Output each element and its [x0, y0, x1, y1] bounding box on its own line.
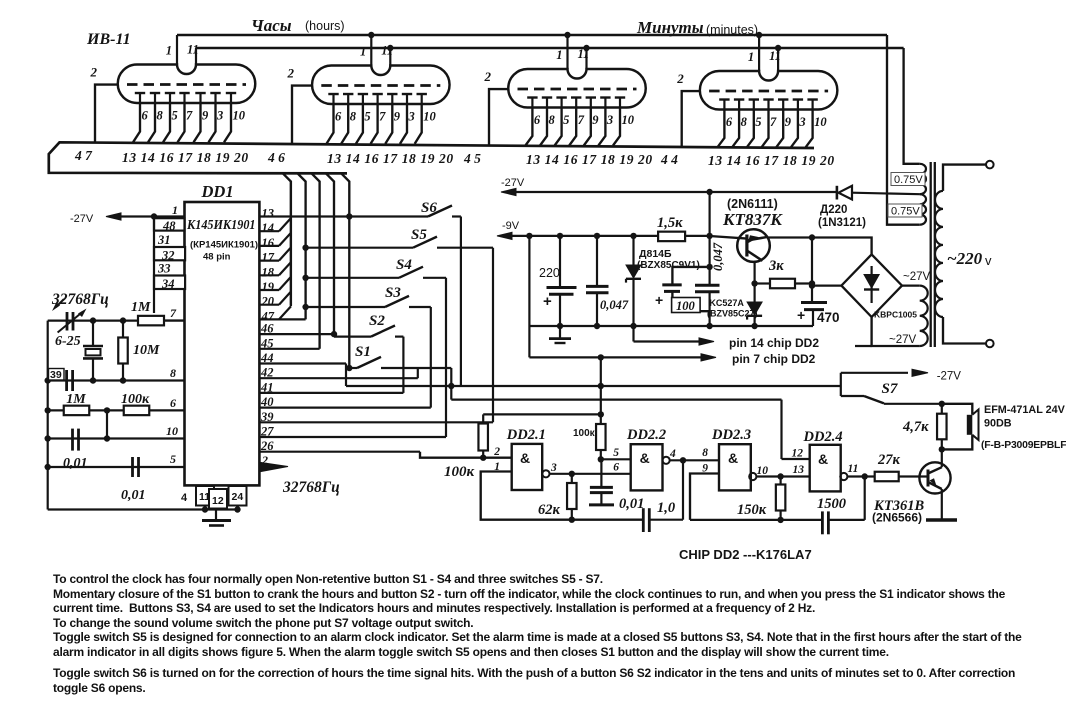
DD2.2 output wire [670, 459, 719, 461]
svg-text:0,01: 0,01 [619, 496, 644, 512]
S7 to speaker node [884, 403, 942, 405]
switch S4 [302, 275, 308, 281]
tube pin 1 riser [758, 35, 760, 71]
svg-text:5: 5 [613, 447, 619, 459]
svg-text:0,01: 0,01 [63, 456, 88, 471]
capacitor 0,01 DD2 [600, 459, 602, 486]
bridge right to winding [902, 285, 920, 287]
svg-text:10: 10 [757, 465, 769, 477]
collector wire [769, 236, 813, 238]
DD1 pin 27 wire [259, 436, 446, 438]
svg-text:4: 4 [669, 448, 676, 460]
svg-text:1: 1 [748, 50, 754, 64]
wire to pin 7 of DD2 [529, 356, 702, 358]
svg-text:11: 11 [381, 44, 393, 58]
trimmer capacitor 6-25 [164, 319, 185, 321]
svg-text:Д814Б: Д814Б [639, 248, 672, 260]
svg-text:(minutes): (minutes) [706, 23, 758, 37]
heater rail 1 drop wire [887, 35, 920, 225]
svg-text:~27V: ~27V [889, 334, 917, 346]
resistor 1M pin7 [138, 316, 164, 326]
-9V rail with arrow [497, 232, 512, 239]
svg-text:11: 11 [578, 47, 590, 61]
svg-text:(2N6566): (2N6566) [872, 511, 922, 525]
svg-text:DD2.2: DD2.2 [626, 427, 666, 443]
svg-text:pin 7 chip DD2: pin 7 chip DD2 [732, 352, 816, 366]
quartz crystal 32768 [90, 317, 96, 323]
svg-text:1: 1 [172, 203, 178, 217]
svg-text:S4: S4 [396, 257, 412, 273]
svg-text:470: 470 [817, 310, 840, 325]
DD2.4 pin12 riser [780, 400, 782, 459]
svg-text:150к: 150к [737, 502, 767, 518]
wiring bus band outline [49, 142, 814, 173]
KT361V ground bar [926, 518, 957, 522]
label 0.75V upper [891, 173, 925, 186]
svg-text:5: 5 [170, 452, 176, 466]
svg-text:Д220: Д220 [820, 204, 847, 216]
svg-text:~220: ~220 [947, 249, 983, 268]
tube grid pin 2 wire [682, 91, 700, 147]
svg-text:6-25: 6-25 [55, 334, 81, 349]
svg-text:(2N6111): (2N6111) [727, 197, 778, 211]
svg-text:2: 2 [287, 66, 295, 81]
tube bottom pin wires to bus [525, 108, 532, 146]
svg-text:7: 7 [578, 113, 585, 127]
tube internal dashed grid line [709, 90, 828, 93]
tube segment electrodes [527, 96, 537, 98]
gate DD2.3 [719, 444, 751, 490]
svg-text:1500: 1500 [817, 496, 846, 512]
DD1 pin 44 wire [259, 362, 346, 364]
svg-text:&: & [818, 451, 828, 467]
svg-text:220: 220 [539, 266, 560, 280]
resistor 27k [875, 472, 899, 482]
svg-text:39: 39 [50, 369, 62, 381]
switch S3 [302, 304, 308, 310]
DD1 pin 34 box [154, 276, 185, 290]
svg-text:EFM-471AL 24V: EFM-471AL 24V [984, 404, 1066, 416]
svg-text:48 pin: 48 pin [203, 252, 231, 263]
tube bottom pin wires to bus [717, 110, 724, 148]
svg-text:31: 31 [157, 233, 171, 247]
svg-text:S5: S5 [411, 227, 427, 243]
tube segment electrodes [719, 98, 729, 100]
svg-text:13 14 16 17 18 19 20: 13 14 16 17 18 19 20 [526, 152, 653, 167]
switch S2 [331, 331, 337, 337]
svg-text:7: 7 [379, 110, 386, 124]
svg-text:13 14 16 17 18 19 20: 13 14 16 17 18 19 20 [708, 153, 835, 168]
svg-text:8: 8 [741, 115, 748, 129]
svg-text:(F-B-P3009EPBLF): (F-B-P3009EPBLF) [981, 440, 1066, 451]
primary terminals [943, 165, 986, 191]
svg-text:8: 8 [350, 110, 357, 124]
svg-text:19: 19 [262, 280, 275, 294]
tube pin 11 riser [585, 48, 587, 69]
svg-text:+: + [797, 307, 805, 323]
svg-text:4: 4 [181, 492, 188, 504]
wire to pin 14 of DD2 [632, 326, 634, 342]
svg-text:100к: 100к [121, 392, 150, 407]
bottom wire to DD2.2 output [650, 519, 683, 521]
svg-text:32: 32 [161, 249, 175, 263]
svg-text:(BZX85C9V1): (BZX85C9V1) [637, 260, 700, 271]
tube internal dashed grid line [127, 83, 246, 86]
svg-text:10М: 10М [133, 343, 160, 358]
wire pin7-line to 100k pullups [598, 354, 604, 360]
-27V rail with arrow [501, 188, 516, 195]
node: hours heater rail (rail 1) [177, 34, 887, 37]
DD2.3 output wire [756, 475, 809, 477]
svg-text:3к: 3к [768, 258, 784, 274]
svg-text:(BZV85C27): (BZV85C27) [707, 309, 758, 319]
VFD tube IV-11 envelope at x=380.8 [312, 66, 450, 105]
svg-text:5: 5 [563, 113, 569, 127]
svg-text:4 6: 4 6 [267, 150, 285, 165]
DD1 pin 26 wire [259, 451, 420, 453]
DD1 pin 45 wire [259, 348, 319, 350]
transistor KT361V (2N6566) [899, 475, 928, 477]
svg-text:v: v [985, 253, 992, 268]
svg-text:3: 3 [798, 115, 805, 129]
tube pin 1 riser [566, 35, 568, 69]
secondary winding 0.75V lower [920, 194, 926, 225]
svg-text:1: 1 [556, 48, 562, 62]
svg-text:&: & [520, 450, 530, 466]
svg-text:18: 18 [262, 265, 275, 279]
svg-text:8: 8 [549, 113, 556, 127]
svg-text:KC527A: KC527A [709, 298, 744, 308]
resistor 10M [122, 321, 124, 338]
PSU ground symbol [559, 326, 561, 338]
svg-text:0,01: 0,01 [121, 488, 146, 503]
secondary winding ~27V [920, 286, 928, 346]
zener diode D814B [630, 233, 636, 239]
S4 drop wire to pin27 row [445, 278, 447, 437]
capacitor 220uF electrolytic [557, 233, 563, 239]
svg-text:16: 16 [262, 236, 275, 250]
primary winding 220V [935, 191, 943, 317]
svg-text:0.75V: 0.75V [894, 174, 923, 186]
svg-text:6: 6 [613, 462, 619, 474]
heater rail 2 drop wire [904, 48, 920, 164]
svg-text:1,5к: 1,5к [657, 215, 683, 231]
DD2.4 pin 12 input wire [782, 458, 810, 460]
svg-text:11: 11 [848, 463, 859, 475]
svg-text:3: 3 [408, 110, 415, 124]
DD1 pin 5 row with 0,01 cap [48, 466, 185, 468]
svg-text:К145ИК1901: К145ИК1901 [186, 217, 255, 232]
svg-text:100: 100 [676, 299, 696, 313]
svg-text:&: & [640, 450, 650, 466]
svg-text:DD2.3: DD2.3 [711, 427, 751, 443]
svg-text:5: 5 [172, 109, 178, 123]
svg-text:ИВ-11: ИВ-11 [86, 31, 131, 48]
svg-text:3: 3 [550, 462, 557, 474]
svg-text:2: 2 [676, 71, 684, 86]
DD1 pin 48 box [154, 218, 185, 230]
svg-text:14: 14 [262, 221, 275, 235]
svg-text:0,047: 0,047 [600, 298, 629, 312]
switch S1 [346, 365, 352, 371]
vertical joining slant stubs [290, 182, 292, 307]
capacitor 0,047 #1 [594, 233, 600, 239]
svg-text:S3: S3 [385, 285, 401, 301]
switch S6 [346, 213, 352, 219]
zener KS527A (BZV85C27) [747, 302, 762, 315]
gate DD2.4 [810, 445, 841, 492]
svg-text:13: 13 [793, 464, 805, 476]
resistor 62k [571, 474, 573, 483]
svg-text:1,0: 1,0 [657, 500, 675, 516]
DD1 pin 32 box [154, 247, 185, 260]
svg-text:11: 11 [769, 49, 781, 63]
svg-text:2: 2 [90, 65, 98, 80]
DD2.4 output wire [847, 475, 874, 477]
svg-text:S1: S1 [355, 344, 371, 360]
svg-text:10: 10 [166, 424, 178, 438]
DD2.1 output wire [550, 473, 631, 475]
resistor 100k #2 [596, 424, 606, 450]
svg-text:62к: 62к [538, 502, 561, 518]
svg-text:11: 11 [187, 43, 199, 57]
long wire to S7 [346, 385, 841, 387]
svg-text:S2: S2 [369, 313, 385, 329]
DD1 pin 46 wire [259, 333, 334, 335]
svg-text:17: 17 [262, 251, 275, 265]
tube grid pin 2 wire [95, 85, 118, 143]
svg-text:(КР145ИК1901): (КР145ИК1901) [190, 240, 258, 251]
pullup top wire [483, 413, 601, 415]
switch S7 branch [840, 373, 842, 396]
speaker EFM-471AL [942, 404, 973, 415]
svg-text:S7: S7 [882, 381, 898, 397]
svg-text:10: 10 [233, 109, 246, 123]
svg-text:33: 33 [157, 262, 171, 276]
svg-text:3: 3 [606, 113, 613, 127]
DD1 pin 1 wire to -27V [106, 213, 121, 220]
tube segment electrodes [135, 92, 145, 94]
bridge left to 470 node [812, 285, 841, 287]
svg-text:~27V: ~27V [903, 271, 931, 283]
tube segment electrodes [328, 93, 338, 95]
capacitor 100uF electrolytic [672, 267, 709, 284]
svg-text:10: 10 [814, 115, 827, 129]
wire -9V to pin7 net vertical [528, 236, 530, 358]
DD1 left pins common rail [153, 217, 155, 314]
capacitor 1,0 in bottom wire [642, 508, 645, 532]
DD1 pin 6 row: 1M and 100k resistors [48, 409, 185, 411]
svg-text:4 7: 4 7 [74, 148, 93, 163]
tube pin 11 riser [195, 48, 197, 65]
svg-text:DD2.4: DD2.4 [803, 429, 843, 445]
svg-text:24: 24 [232, 491, 244, 503]
svg-text:DD1: DD1 [201, 182, 234, 201]
svg-text:2: 2 [484, 69, 492, 84]
tube pin 11 riser [777, 48, 779, 71]
resistor 100k #1 [482, 414, 484, 423]
bridge bottom wire [872, 317, 920, 346]
svg-text:-27V: -27V [937, 371, 962, 383]
svg-text:5: 5 [364, 110, 370, 124]
tube pin 1 riser [370, 35, 372, 66]
svg-text:+: + [655, 292, 663, 308]
resistor 150k [779, 477, 781, 485]
svg-text:DD2.1: DD2.1 [506, 427, 546, 443]
S2 drop wire to pin41 row [402, 337, 404, 393]
svg-text:8: 8 [157, 109, 164, 123]
svg-text:CHIP DD2 ---K176LA7: CHIP DD2 ---K176LA7 [679, 547, 812, 562]
diode D220 on -27V rail [836, 186, 839, 200]
DD1 ground symbol [215, 510, 217, 520]
PSU common rail [529, 325, 813, 327]
gate DD2.2 [631, 444, 663, 490]
svg-text:8: 8 [702, 447, 708, 459]
VFD tube IV-11 envelope at x=186.5 [118, 65, 256, 104]
svg-text:(1N3121): (1N3121) [818, 217, 866, 229]
svg-text:(hours): (hours) [305, 19, 345, 33]
svg-text:90DB: 90DB [984, 418, 1012, 430]
tube internal dashed grid line [321, 84, 440, 87]
DD1 bottom pins to ground wire [204, 506, 206, 510]
svg-text:4 4: 4 4 [660, 152, 678, 167]
svg-text:13: 13 [262, 207, 275, 221]
svg-text:1: 1 [360, 45, 366, 59]
svg-text:6: 6 [142, 109, 149, 123]
tube grid pin 2 wire [489, 89, 509, 145]
svg-text:-9V: -9V [502, 220, 520, 232]
svg-text:1: 1 [166, 44, 172, 58]
DD2.1 input 1 feedback wire [481, 472, 643, 520]
svg-text:100к: 100к [573, 428, 596, 439]
svg-text:32768Гц: 32768Гц [282, 479, 340, 496]
svg-text:7: 7 [770, 115, 777, 129]
svg-text:13 14 16 17 18 19 20: 13 14 16 17 18 19 20 [327, 151, 454, 166]
DD1 pin 39 wire [259, 421, 493, 423]
DD2.2 input 5 wire [601, 458, 630, 460]
diode bridge KBPC1005 [841, 254, 902, 317]
svg-text:8: 8 [170, 366, 176, 380]
base feed vertical and 0,047 #2 capacitor [706, 233, 712, 239]
svg-text:10: 10 [423, 110, 436, 124]
svg-text:9: 9 [202, 109, 209, 123]
svg-text:48: 48 [162, 219, 176, 233]
DD1 pin 40 wire [259, 407, 430, 409]
emitter wire down [753, 262, 755, 302]
svg-text:5: 5 [755, 115, 761, 129]
oscillator left rail [47, 321, 49, 510]
gate DD2.1 [512, 444, 543, 490]
svg-text:КТ837К: КТ837К [722, 210, 783, 229]
tube grid pin 2 wire [292, 86, 312, 144]
svg-text:pin 14 chip DD2: pin 14 chip DD2 [729, 336, 819, 350]
svg-text:4 5: 4 5 [463, 151, 481, 166]
DD2.2 input 6 wire [663, 457, 670, 464]
svg-text:7: 7 [170, 306, 177, 320]
tube internal dashed grid line [518, 88, 637, 91]
svg-text:S6: S6 [421, 200, 437, 216]
transistor KT837K (2N6111) [710, 236, 747, 239]
bottom wire with 1500 capacitor [690, 519, 822, 521]
svg-text:6: 6 [534, 113, 541, 127]
VFD tube IV-11 envelope at x=577 [508, 69, 645, 108]
svg-text:34: 34 [161, 277, 175, 291]
transformer core [930, 162, 932, 347]
tube pin 11 riser [389, 48, 391, 66]
svg-text:+: + [543, 293, 552, 310]
svg-text:&: & [728, 450, 738, 466]
S1 drop wire to pin42 row [417, 368, 419, 378]
svg-text:6: 6 [335, 110, 342, 124]
VFD tube IV-11 envelope at x=768.6 [700, 71, 838, 110]
svg-text:10: 10 [622, 113, 635, 127]
bridge top to collector node [812, 238, 872, 255]
svg-text:3: 3 [216, 109, 223, 123]
switch S5 [302, 245, 308, 251]
svg-text:6: 6 [170, 396, 176, 410]
pin44 corner to long wire [345, 364, 347, 387]
bus to DD1 drop wires [283, 173, 291, 305]
svg-text:-27V: -27V [501, 177, 525, 189]
svg-text:Часы: Часы [251, 16, 292, 35]
svg-text:100к: 100к [444, 464, 475, 480]
DD2.3 input 9 wire [690, 474, 719, 520]
label 0.75V lower [888, 204, 922, 217]
tube bottom pin wires to bus [327, 104, 334, 144]
svg-text:2: 2 [493, 446, 500, 458]
S6 drop wire [460, 217, 462, 387]
S5 drop wire to pin39 row [492, 248, 494, 423]
svg-text:13 14 16 17 18 19 20: 13 14 16 17 18 19 20 [122, 150, 249, 165]
svg-text:12: 12 [792, 448, 804, 460]
DD1 pin 8 row with 39pF cap [48, 379, 185, 381]
DD1 pin 42 wire [259, 377, 417, 379]
svg-text:7: 7 [186, 109, 193, 123]
DD1 pin 10 row with 0,01 cap [48, 437, 185, 439]
svg-text:KBPC1005: KBPC1005 [874, 310, 917, 320]
svg-text:-27V: -27V [70, 213, 94, 225]
svg-text:Минуты: Минуты [636, 18, 704, 37]
resistor 4,7k [941, 404, 943, 414]
svg-text:1М: 1М [66, 392, 86, 407]
svg-text:27к: 27к [877, 452, 901, 468]
resistor 1,5k [658, 232, 685, 242]
svg-text:9: 9 [785, 115, 792, 129]
second long wire to DD2.4 pin 12 [451, 399, 781, 401]
svg-text:9: 9 [592, 113, 599, 127]
S3 drop wire to pin40 row [430, 307, 432, 408]
tube pin 1 riser [176, 35, 178, 65]
svg-text:9: 9 [394, 110, 401, 124]
svg-text:0.75V: 0.75V [891, 206, 920, 218]
svg-text:6: 6 [726, 115, 733, 129]
secondary winding 0.75V upper [920, 164, 926, 194]
470uF electrolytic capacitor [809, 234, 815, 240]
bottom wire to DD1 ground [48, 508, 238, 510]
svg-text:12: 12 [212, 495, 224, 507]
svg-text:20: 20 [261, 295, 275, 309]
svg-text:0,047: 0,047 [711, 242, 725, 271]
DD1 pin 41 wire [259, 392, 403, 394]
svg-text:1М: 1М [131, 300, 151, 315]
IC DD1 K145IK1901 body [185, 202, 260, 485]
S1 drop wire to DD2 feed lines [450, 368, 452, 400]
tube bottom pin wires to bus [133, 103, 140, 142]
svg-text:4,7к: 4,7к [902, 419, 929, 435]
resistor 3k [751, 280, 757, 286]
node: minutes heater rail (rail 2) [196, 47, 904, 50]
wire DD1 pin26 to DD2.1 input 2 [420, 452, 512, 458]
